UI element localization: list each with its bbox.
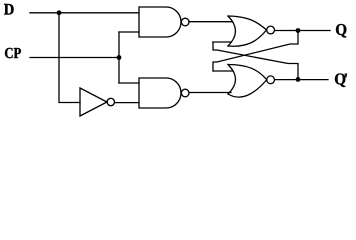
wire CP to NAND2 input 1 [119,82,139,84]
wire NOR1 input 2 stub [213,41,231,43]
label Q' [335,73,347,86]
node CP junction [117,55,122,60]
inverter U3 [80,88,115,116]
wire CP input [30,57,119,59]
label D [4,4,14,15]
wire NAND1 output to NOR1 input 1 [189,21,233,23]
label Q [336,24,346,37]
node D junction [57,10,62,15]
wire CP branch vertical [118,32,120,83]
wire inverter output to NAND2 input 2 [115,102,140,104]
nor gate U5 [228,65,275,98]
nand gate U2 [139,78,189,108]
wire NAND2 output to NOR2 input 2 [189,92,231,94]
node Q' junction [296,77,301,82]
nor gate U4 [228,16,275,46]
wire D branch down to inverter [59,13,80,103]
wire feedback Q' to NOR1 input 2 [213,42,298,80]
wire NOR2 input 1 stub [213,70,233,72]
wire D input [30,12,139,14]
label CP [5,48,21,58]
nand gate U1 [139,7,189,37]
wire CP to NAND1 input 2 [119,31,139,33]
wire feedback Q to NOR2 input 1 [213,31,298,72]
wire NOR2 output to Q' [275,79,329,81]
wire NOR1 output to Q [275,30,331,32]
node Q junction [296,28,301,33]
